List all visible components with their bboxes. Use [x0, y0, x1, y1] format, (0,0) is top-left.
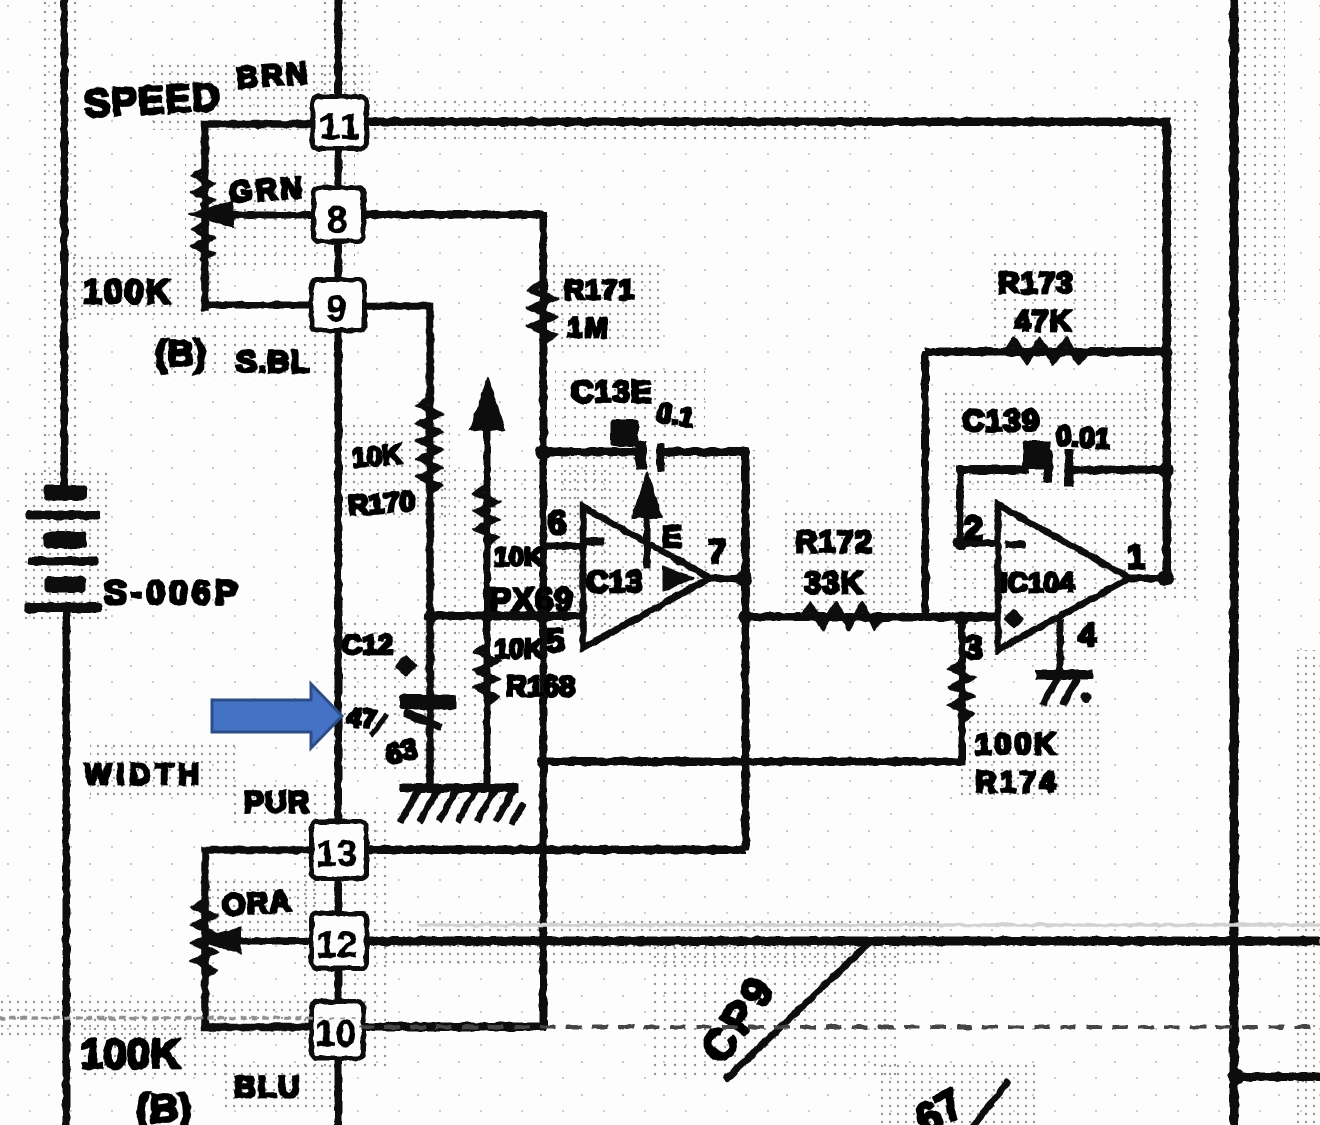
connector box 8 [314, 188, 363, 241]
junction at x430/y616 [424, 610, 436, 622]
junction at x487/y616 [482, 611, 493, 622]
op-amp IC13 triangle [583, 507, 710, 648]
label E [662, 521, 682, 554]
label PUR [244, 786, 310, 819]
wire: pin10 right [365, 1023, 546, 1031]
label CP9 [692, 966, 786, 1072]
faint scan line [420, 924, 1320, 927]
potentiometer WIDTH 100K zigzag [195, 900, 214, 977]
junction x745/y617 [739, 611, 751, 623]
resistor R170 zigzag [420, 398, 439, 493]
ground bar main [400, 784, 518, 792]
junction pin2 [954, 537, 967, 550]
scan fold dashed line [0, 1018, 1320, 1027]
junction x543/y848 [538, 843, 548, 853]
wire: R174 vertical x962 [959, 617, 965, 765]
svg-text:7: 7 [708, 533, 726, 570]
label 100K (R174) [975, 728, 1059, 761]
junction x543/y762 [538, 757, 549, 768]
label 7 [708, 533, 726, 570]
svg-text:BRN: BRN [235, 57, 311, 95]
wire: pin11 right long wire [368, 118, 1168, 126]
wire: wiper to pin8 [230, 212, 312, 218]
label 47 [345, 702, 386, 735]
wire: pin8 right [365, 211, 543, 218]
svg-text:12: 12 [316, 924, 357, 965]
label R172 [795, 524, 873, 559]
junction output [737, 572, 752, 587]
svg-text:BLU: BLU [234, 1071, 302, 1104]
svg-text:S.BL: S.BL [236, 344, 311, 379]
label 33K [804, 565, 864, 600]
ground hatches [402, 793, 522, 822]
wire: R174 bottom run y762 [543, 758, 962, 765]
label SPEED [83, 76, 222, 126]
svg-text:5: 5 [546, 622, 564, 659]
svg-text:8: 8 [327, 199, 348, 240]
label IC13 [586, 564, 694, 599]
label 10K (R170) [351, 439, 403, 473]
label (B) lower [136, 1087, 192, 1125]
blue annotation arrow [212, 684, 342, 748]
wire: pin13 left [205, 850, 310, 1027]
svg-text:E: E [662, 521, 682, 554]
wire: feedback top wire y452 with C13E [543, 448, 747, 456]
svg-text:1: 1 [1127, 538, 1145, 575]
label 100K lower pot [80, 1030, 180, 1077]
svg-text:3: 3 [964, 629, 983, 667]
svg-text:6: 6 [548, 504, 566, 541]
svg-text:100K: 100K [975, 728, 1059, 761]
capacitor C139 plates [1023, 441, 1073, 486]
svg-text:GRN: GRN [228, 171, 306, 209]
junction at x543/y616 [537, 610, 550, 623]
minus sign pin6 [585, 538, 604, 545]
wire: bottom right stub [1228, 1069, 1320, 1085]
label 5 (pin) [546, 622, 564, 659]
svg-text:PUR: PUR [244, 786, 310, 819]
wire: left battery rail bottom [63, 611, 70, 1125]
label 0.01 [1055, 420, 1112, 455]
label GRN [228, 171, 306, 209]
resistor R171 zigzag [532, 282, 553, 343]
svg-text:9: 9 [326, 288, 347, 329]
wire: R172 run y617 [745, 613, 998, 621]
label R171 [564, 274, 635, 305]
label 100K (speed pot) [83, 273, 172, 311]
plus diamond pin3 [1005, 610, 1023, 628]
connector box 11 [313, 97, 366, 148]
svg-text:R173: R173 [998, 267, 1074, 300]
wire: IC13 output [708, 575, 745, 582]
resistor R168 zigzag [477, 645, 496, 704]
resistor R169 zigzag [477, 486, 496, 545]
resistor R174 zigzag [952, 662, 971, 721]
svg-text:R174: R174 [975, 766, 1059, 799]
wire: right side of feedback loop x745 [742, 448, 749, 850]
svg-text:100K: 100K [80, 1030, 180, 1077]
connector box 12 [312, 914, 366, 968]
potentiometer 100K body zigzag [195, 170, 211, 259]
minus sign pin2 [1006, 541, 1025, 548]
wire: pin2 stub [957, 540, 998, 546]
svg-text:13: 13 [316, 833, 357, 874]
label BRN [235, 57, 311, 95]
wire: pin9 right then down (R170 branch) [366, 306, 430, 788]
arrow E inside [632, 471, 662, 567]
resistor R173 zigzag [1007, 341, 1086, 361]
svg-text:R172: R172 [795, 524, 873, 559]
wire: noninverting input y616 [430, 612, 583, 620]
capacitor C13E plates [611, 420, 664, 471]
svg-text:WIDTH: WIDTH [84, 759, 204, 791]
label 63 [382, 733, 420, 771]
label 4 [1078, 616, 1097, 653]
svg-text:2: 2 [964, 510, 983, 548]
svg-text:47K: 47K [1014, 305, 1072, 338]
svg-text:0.01: 0.01 [1055, 420, 1112, 455]
label C139 [962, 403, 1040, 438]
label 0.1 [654, 397, 696, 433]
wire: C139 run y470 [957, 466, 1168, 474]
op-amp IC104 triangle [998, 505, 1130, 650]
svg-text:C13E: C13E [571, 374, 653, 409]
junction C139/right rail [1159, 463, 1173, 477]
svg-text:(B): (B) [136, 1087, 192, 1125]
pin6 stub [543, 543, 585, 549]
junction R174 top [956, 612, 969, 625]
label R168 [506, 671, 575, 703]
pot wiper arrow [189, 201, 233, 227]
wire: wiper to pin12 [238, 938, 312, 944]
svg-text:C139: C139 [962, 403, 1040, 438]
wire: vertical x543 main [540, 212, 547, 1028]
label 2 [964, 510, 983, 548]
svg-text:33K: 33K [804, 565, 864, 600]
wire: pin2 drop x960 [957, 470, 963, 545]
label R170 [347, 486, 416, 522]
junction feedback/R171 [536, 445, 550, 459]
wire: pot bottom to pin9 [205, 302, 310, 308]
svg-text:10K: 10K [494, 634, 544, 664]
label IC104 [1000, 567, 1075, 598]
connector box 10 [312, 1002, 363, 1058]
label CP9 pointer line [727, 944, 868, 1078]
pot2 wiper arrow [195, 927, 241, 953]
label 1M [567, 312, 610, 343]
label WIDTH [84, 759, 204, 791]
label 1 [1127, 538, 1145, 575]
svg-text:R168: R168 [506, 671, 575, 703]
svg-text:R170: R170 [347, 486, 416, 522]
svg-text:11: 11 [319, 106, 362, 147]
wire: pin13 right to feedback [368, 846, 746, 854]
svg-text:C12: C12 [342, 629, 393, 660]
label S-006P [104, 574, 241, 612]
label C13E [571, 374, 653, 409]
svg-text:4: 4 [1078, 616, 1097, 653]
label C12 [342, 629, 417, 676]
label S.BL [236, 344, 311, 379]
wire: R173 run y352 [925, 348, 1168, 356]
svg-text:IC104: IC104 [1000, 567, 1075, 598]
wire: connector column vertical [335, 0, 342, 1125]
battery S-006P [25, 486, 102, 612]
label R169 [489, 581, 574, 618]
junction x745/y762 [740, 757, 750, 767]
right page border line [1230, 0, 1238, 1125]
label 10K (R169) [494, 542, 544, 572]
svg-text:10K: 10K [351, 439, 403, 473]
svg-text:ORA: ORA [221, 885, 293, 923]
svg-text:10K: 10K [494, 542, 544, 572]
svg-text:C13: C13 [586, 564, 643, 599]
ground IC104 [1036, 670, 1092, 702]
resistor R172 zigzag [803, 606, 882, 626]
svg-text:1M: 1M [567, 312, 610, 343]
connector box 13 [312, 822, 366, 878]
wire: pin11 left to pot [205, 124, 311, 307]
svg-text:SPEED: SPEED [83, 76, 222, 126]
trimmer arrow up [470, 377, 505, 788]
wire: left battery rail top [61, 0, 68, 487]
wire: pin12 right long [368, 937, 1320, 945]
svg-text:(B): (B) [155, 333, 206, 374]
wire: IC104 output [1130, 575, 1168, 582]
junction IC104 out [1159, 571, 1174, 586]
svg-text:100K: 100K [83, 273, 172, 311]
label R173 [998, 267, 1074, 300]
label ORA [221, 885, 293, 923]
connector box 9 [312, 280, 364, 330]
svg-text:S-006P: S-006P [104, 574, 241, 612]
label BLU [234, 1071, 302, 1104]
label 3 [964, 629, 983, 667]
wire: vertical x925 R173 left leg [922, 352, 929, 617]
junction R173/right rail [1160, 346, 1172, 358]
wire: right drop vertical from pin11 wire [1163, 118, 1171, 581]
svg-text:R171: R171 [564, 274, 635, 305]
svg-text:0.1: 0.1 [654, 397, 696, 433]
wire: pin4 stub [1057, 620, 1063, 672]
label 10K (R168) [494, 634, 544, 664]
label R174 [975, 766, 1059, 799]
label 6 (pin) [548, 504, 566, 541]
label bottom 6/ [907, 1079, 1007, 1125]
label 47K [1014, 305, 1072, 338]
label (B) speed pot [155, 333, 206, 374]
capacitor C12 electrolytic on x430 [400, 695, 456, 726]
